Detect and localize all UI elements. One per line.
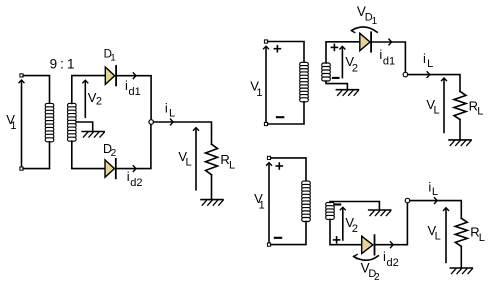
label i_L (top right) (423, 51, 433, 70)
wire node to RL (top right) (408, 75, 460, 92)
label VD2 (361, 261, 380, 284)
label + on secondary (bottom right) (334, 237, 340, 243)
diode D1 (top right) (360, 32, 371, 51)
wire node to RL (bottom right) (410, 201, 462, 219)
wire secondary top to D1 (72, 76, 105, 104)
node junction (top right) (403, 72, 408, 77)
label − on V1 (bottom right) (275, 237, 281, 239)
label + on V1 (top right) (274, 46, 280, 52)
primary winding (top right) (300, 62, 309, 102)
voltage arrow V2 (top right) (340, 46, 345, 77)
label i_d1 (left) (125, 78, 141, 98)
wire primary to V1 bottom (bottom right) (271, 222, 306, 245)
wire RL to ground (bottom right) (460, 246, 462, 267)
diode D2 (left) (105, 159, 116, 178)
wire secondary bottom to ground (top right) (326, 81, 347, 89)
voltage arrow VL (bottom right) (444, 208, 449, 263)
wire RL to ground (left) (211, 175, 213, 200)
label RL (left) (220, 152, 235, 171)
wire primary bottom to bottom square (23, 142, 49, 169)
wire primary to V1 bottom (top right) (268, 102, 304, 124)
wire RL to ground (top right) (459, 120, 461, 140)
node junction (bottom right) (405, 198, 410, 203)
ground at center tap (82, 132, 104, 138)
label VL (bottom right) (428, 223, 441, 243)
voltage source V1 (bottom right) (267, 156, 272, 246)
label D2 (103, 142, 117, 159)
primary winding T1-P (left) (45, 103, 54, 141)
wire secondary top to ground (bottom right) (330, 202, 379, 210)
wire V1 top to primary (top right) (268, 42, 304, 63)
voltage arrow V2 (left) (83, 80, 88, 117)
label V2 (top right) (345, 54, 358, 74)
label i_L (bottom right) (428, 179, 438, 198)
label RL (top right) (469, 99, 484, 118)
label V2 (bottom right) (345, 215, 358, 235)
secondary winding T1-S (left) (68, 103, 77, 141)
wire D1 to node (top right) (371, 42, 405, 72)
voltage arc VD2 (354, 254, 379, 260)
transformer ratio label 9:1 (50, 56, 75, 71)
label − on secondary (top right) (333, 77, 339, 79)
voltage arc VD1 (351, 27, 377, 33)
primary winding (bottom right) (302, 181, 311, 221)
label i_d2 (bottom right) (383, 249, 399, 269)
diode D1 (left) (105, 66, 116, 85)
current arrowhead i_L (top right) (427, 72, 430, 78)
wire V1 top to primary (bottom right) (271, 158, 306, 181)
ground on secondary top (bottom right) (369, 210, 391, 216)
wire D2 to node (bottom right) (375, 203, 407, 245)
label VL (left) (178, 149, 191, 169)
resistor RL (bottom right) (455, 218, 467, 246)
resistor RL (top right) (454, 91, 466, 119)
ground below RL (left) (201, 200, 223, 206)
current arrowhead i_d1 (top right) (389, 39, 392, 45)
label V1 (left) (6, 112, 16, 132)
wire top square to primary (23, 76, 49, 104)
label V1 (bottom right) (254, 191, 265, 211)
label − on V1 (top right) (277, 116, 283, 118)
voltage source V1 (left circuit) (19, 74, 24, 170)
wire D1 cathode to node (117, 76, 151, 120)
voltage arrow V2 (bottom right) (340, 207, 345, 240)
label D1 (104, 48, 116, 63)
voltage source V1 (top right) (264, 40, 269, 126)
current arrowhead i_L (left) (171, 119, 174, 125)
secondary winding (bottom right) (326, 202, 335, 219)
label VD1 (357, 4, 378, 27)
wire node to RL (left) (154, 122, 212, 144)
voltage arrow VL (left) (194, 128, 199, 190)
label + on V1 (bottom right) (276, 163, 282, 169)
label − on secondary (bottom right) (334, 203, 340, 205)
node junction (left) (149, 120, 154, 125)
label + on secondary (top right) (331, 44, 337, 50)
wire secondary bottom to D2 (72, 141, 105, 168)
label i_L (left) (165, 100, 175, 119)
ground below RL (top right) (449, 140, 471, 146)
label i_d1 (top right) (379, 47, 395, 67)
current arrowhead i_d2 (bottom right) (391, 242, 394, 248)
wire secondary top to D1 (top right) (326, 42, 360, 63)
label VL (top right) (426, 97, 439, 117)
current arrowhead i_L (bottom right) (435, 198, 438, 204)
secondary winding (top right) (322, 63, 331, 81)
ground below RL (bottom right) (450, 268, 472, 274)
ground below secondary (top right) (336, 90, 358, 96)
diode D2 (bottom right) (362, 235, 375, 254)
current arrowhead i_d2 (left) (133, 166, 136, 172)
svg-text:9 : 1: 9 : 1 (50, 56, 75, 71)
current arrowhead i_d1 (left) (133, 73, 136, 79)
label RL (bottom right) (470, 225, 485, 244)
resistor RL (left) (206, 144, 218, 175)
label i_d2 (left) (127, 169, 143, 189)
label V2 (left) (88, 90, 102, 108)
center tap wire (76, 122, 93, 131)
label V1 (top right) (250, 79, 262, 99)
wire secondary bottom to D2 (bottom right) (330, 219, 362, 244)
wire D2 cathode to node (117, 124, 151, 168)
voltage arrow VL (top right) (442, 78, 447, 132)
